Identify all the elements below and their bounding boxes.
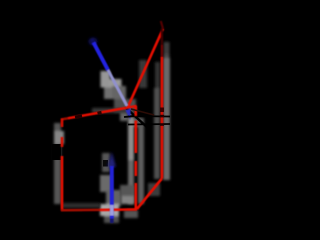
left edge of front face (dashed upper part) [61,119,64,148]
vector arrow a: faint tail tip [92,39,94,43]
vector arrow b: shaft [110,166,114,219]
dark notch on back-right edge [160,108,164,113]
vector arrow b: arrowhead (tip up) [108,152,116,167]
vector arrow a: bright upper shaft [94,43,109,71]
back-bottom slanted edge [137,179,162,210]
back-right vertical edge (bright part) [161,57,164,179]
artifact blocks along diagonal vector a [101,71,142,127]
right edge of front face (interrupted) [135,106,138,210]
hidden black lattice row lines [128,115,170,118]
rear slanted edge from apex to node J [128,29,163,107]
hidden black lattice line through node J [125,107,148,128]
back-right vertical edge (dark mid part) [161,45,163,57]
artifact blocks along bottom cell edge [62,108,160,218]
lattice notch on top edge [75,116,82,117]
faint hidden lattice edge right of node J [131,109,154,115]
top edge of front face [68,106,137,118]
vector arrow a: arrowhead at node J [125,108,130,120]
artifact blocks along vertical vector b [100,153,121,223]
left edge of front face (solid lower part) [61,156,64,211]
vector arrow b: fading tail [110,219,114,224]
vector arrow b: shaft highlighted by artifact block [110,205,114,216]
second lattice row notch on back-right edge [160,123,164,126]
vector arrow a: lavender lower shaft [108,70,127,106]
bottom edge of front face (bright right part) [100,208,137,211]
top edge of front face (dark near corner) [61,118,68,119]
black notch on left artifact band [52,144,61,160]
back-right vertical edge (darkest upper part) [161,29,163,46]
artifact band along left cell edge [54,123,64,204]
lattice row notch on back-right edge [160,115,164,118]
artifact bands along back-right cell edge [139,42,170,180]
artifact bands along front-right cell edge [128,112,144,204]
red unit cell [61,21,163,211]
black notch on arrow-b artifact block [103,160,108,167]
bottom edge of front face (darker left part) [61,209,100,212]
second lattice notch on top edge [98,111,102,115]
lattice line crossing arrowhead of vector a [124,115,134,118]
vector arrow a: faint tail glow [89,38,98,46]
faint apex tip [161,21,163,29]
